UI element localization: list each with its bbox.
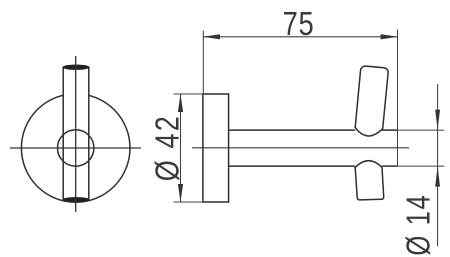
svg-text:Ø 42: Ø 42	[150, 114, 186, 181]
svg-text:Ø 14: Ø 14	[401, 194, 438, 256]
svg-text:75: 75	[283, 7, 315, 43]
